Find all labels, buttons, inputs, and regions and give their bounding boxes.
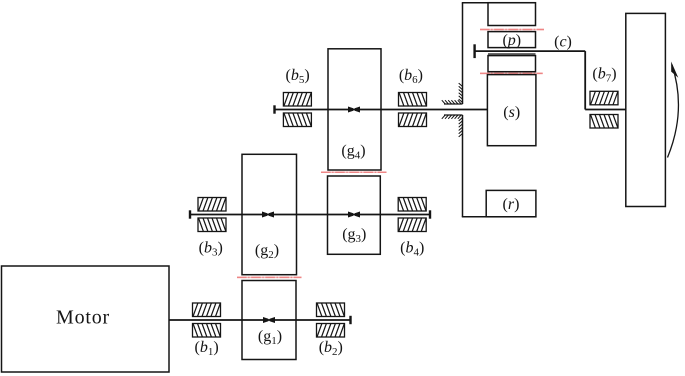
svg-text:(b2): (b2) xyxy=(319,339,343,358)
carrier line through planet xyxy=(475,50,586,52)
wall penetration upper sleeve xyxy=(444,103,463,105)
bowtie marker g2 on shaft 2 xyxy=(262,212,273,217)
wall penetration lower hatching xyxy=(442,115,463,137)
shaft 2 xyxy=(190,214,430,216)
ring gear housing bottom line xyxy=(462,216,536,218)
bearing b1 xyxy=(193,303,221,317)
ring gear r box xyxy=(486,190,536,216)
shaft 3 left end tick xyxy=(273,105,275,113)
ring gear housing top line xyxy=(462,2,536,4)
rotation arrowhead xyxy=(671,62,678,78)
mesh line g3-g4 (red dash-dot) xyxy=(321,171,387,173)
mesh line planet-sun (red dash-dot) xyxy=(480,72,543,74)
bearing b3 xyxy=(198,198,226,212)
svg-text:(g1): (g1) xyxy=(258,328,282,347)
svg-text:(b5): (b5) xyxy=(286,67,310,86)
ring gear upper section box xyxy=(488,3,536,26)
shaft 1 end tick xyxy=(349,316,351,324)
svg-text:(b3): (b3) xyxy=(199,239,223,258)
svg-text:(c): (c) xyxy=(554,34,572,51)
shaft 1 xyxy=(169,319,351,321)
svg-text:(g2): (g2) xyxy=(255,242,279,261)
svg-text:(p): (p) xyxy=(502,32,521,49)
carrier left end tick xyxy=(473,44,475,58)
wall penetration upper hatching xyxy=(442,83,463,104)
motor box xyxy=(2,266,170,372)
planet gear lower section box xyxy=(488,56,536,72)
svg-text:(b6): (b6) xyxy=(399,67,423,86)
bowtie marker g4 on shaft 3 xyxy=(348,107,359,112)
svg-text:(b7): (b7) xyxy=(592,66,616,85)
svg-text:(b1): (b1) xyxy=(195,339,219,358)
gear g4 xyxy=(328,49,381,170)
shaft 3 xyxy=(275,109,488,111)
bearing b5 xyxy=(283,93,311,107)
bowtie marker g1 on shaft 1 xyxy=(263,317,274,322)
bearing b4 xyxy=(398,198,426,212)
carrier vertical drop xyxy=(584,51,586,109)
carrier band lower line xyxy=(488,53,536,55)
sun gear s box xyxy=(487,75,536,146)
svg-text:(s): (s) xyxy=(503,104,520,121)
svg-text:(g4): (g4) xyxy=(341,143,365,162)
carrier output shaft to load xyxy=(585,109,626,111)
bearing b2 xyxy=(317,303,345,317)
rotation direction arc arrow xyxy=(668,65,679,158)
svg-text:(b4): (b4) xyxy=(400,239,424,258)
shaft 2 left end tick xyxy=(189,210,191,218)
bearing b6 xyxy=(399,93,427,107)
ring gear housing left wall xyxy=(462,3,464,104)
wall penetration lower sleeve xyxy=(444,114,463,116)
gear g3 xyxy=(328,176,381,254)
mesh line g1-g2 (red dash-dot) xyxy=(237,276,302,278)
svg-text:Motor: Motor xyxy=(56,307,110,329)
bowtie marker g3 on shaft 2 xyxy=(348,212,359,217)
planet gear p box xyxy=(488,32,536,48)
gear g1 xyxy=(242,281,296,360)
output load box xyxy=(626,13,666,206)
shaft 2 right end tick xyxy=(429,210,431,218)
bearing b7 xyxy=(590,91,618,105)
svg-text:(g3): (g3) xyxy=(342,226,366,245)
gear g2 xyxy=(242,154,297,274)
mesh line ring-planet (red dash-dot) xyxy=(480,29,544,31)
svg-text:(r): (r) xyxy=(503,196,520,213)
